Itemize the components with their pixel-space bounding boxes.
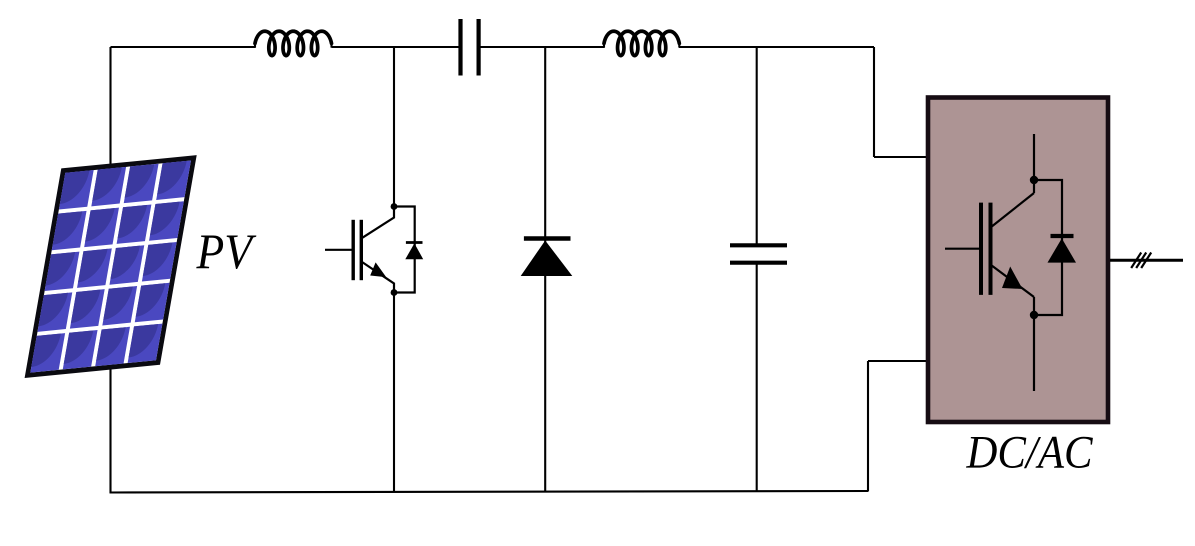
- svg-text:DC/AC: DC/AC: [966, 427, 1093, 479]
- svg-text:PV: PV: [196, 223, 257, 279]
